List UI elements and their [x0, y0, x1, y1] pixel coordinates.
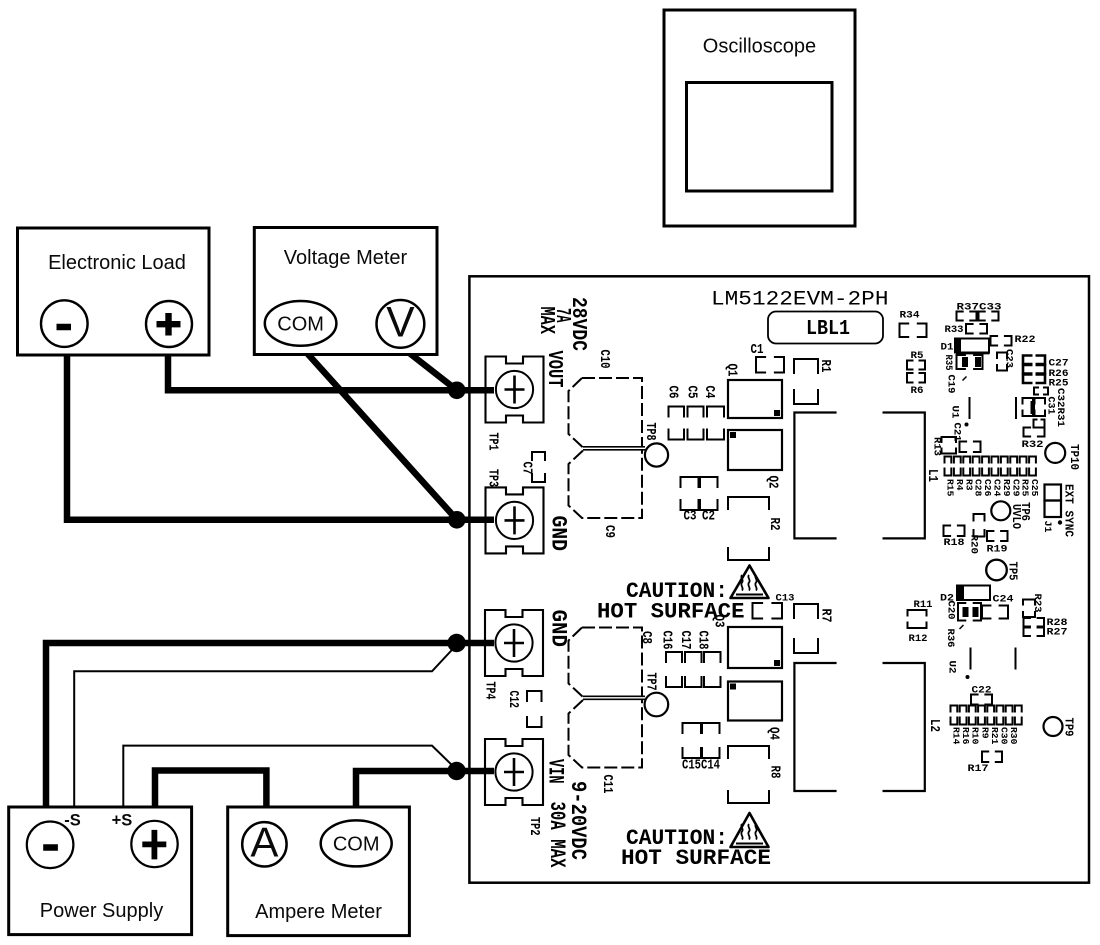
- capacitor C4: [701, 386, 724, 440]
- junction node GND2: [447, 634, 465, 652]
- svg-text:R20: R20: [968, 535, 980, 555]
- capacitor C2: [700, 477, 718, 525]
- TP3 label: [485, 469, 500, 487]
- svg-text:C7: C7: [519, 462, 534, 475]
- op-amp U1: [949, 377, 970, 427]
- test point TP10: [1045, 443, 1081, 470]
- resistor R20: [968, 514, 985, 554]
- svg-text:R33: R33: [945, 324, 964, 336]
- svg-text:R22: R22: [1015, 334, 1036, 346]
- electronic load terminal -: [41, 300, 88, 347]
- resistor R1: [794, 359, 832, 404]
- capacitor C24: [993, 594, 1014, 606]
- header labels: [951, 727, 1020, 745]
- capacitors C32 R31 C31: [1016, 388, 1066, 428]
- svg-text:GND: GND: [546, 610, 571, 648]
- svg-text:TP10: TP10: [1067, 444, 1081, 470]
- label LBL1: [768, 312, 883, 344]
- svg-text:R9: R9: [979, 727, 990, 739]
- svg-text:R12: R12: [909, 633, 928, 645]
- svg-text:R8: R8: [767, 766, 782, 779]
- transistor Q2: [728, 430, 782, 489]
- electronic load box: [18, 228, 210, 355]
- svg-text:C1: C1: [751, 343, 764, 358]
- svg-text:C29: C29: [1010, 479, 1021, 497]
- wire: power supply +S sense to VIN junction: [123, 746, 456, 808]
- svg-text:R15: R15: [945, 479, 956, 497]
- svg-text:L1: L1: [924, 469, 939, 482]
- svg-text:Power Supply: Power Supply: [40, 900, 163, 922]
- capacitor C7: [519, 452, 546, 482]
- svg-text:C31: C31: [1045, 397, 1057, 415]
- test point TP1 VOUT: [486, 357, 544, 423]
- svg-text:TP2: TP2: [526, 817, 541, 836]
- VIN label: [543, 759, 568, 784]
- svg-text:C28: C28: [973, 479, 984, 497]
- capacitor C5: [684, 386, 704, 440]
- capacitor C16: [659, 631, 683, 688]
- svg-text:LBL1: LBL1: [806, 317, 850, 341]
- caution hot surface upper: [597, 566, 769, 625]
- resistor R35: [942, 355, 983, 371]
- svg-text:J1: J1: [1041, 521, 1053, 533]
- svg-text:R6: R6: [911, 385, 924, 397]
- svg-text:LM5122EVM-2PH: LM5122EVM-2PH: [711, 289, 889, 312]
- wire: ampere meter COM to VIN junction TP2: [356, 771, 494, 808]
- svg-text:R2: R2: [766, 518, 781, 531]
- capacitor C13: [753, 593, 795, 619]
- oscilloscope screen: [687, 83, 833, 192]
- resistor R34: [900, 310, 927, 338]
- svg-text:VOUT: VOUT: [542, 351, 565, 388]
- capacitor C9 outline: [569, 451, 643, 539]
- svg-text:U1: U1: [949, 406, 961, 419]
- svg-text:Q3: Q3: [711, 615, 726, 628]
- svg-text:GND: GND: [546, 516, 571, 552]
- svg-text:R19: R19: [987, 544, 1008, 556]
- capacitor C18: [695, 631, 721, 688]
- capacitor C24 footprint: [982, 606, 1008, 619]
- svg-text:R17: R17: [968, 763, 989, 775]
- resistor R12: [909, 633, 928, 645]
- test point TP6 UVLO: [991, 501, 1032, 529]
- svg-text:28VDC: 28VDC: [566, 297, 590, 351]
- svg-text:R29: R29: [1001, 479, 1012, 497]
- svg-text:C26: C26: [982, 479, 993, 497]
- svg-text:TP1: TP1: [485, 433, 500, 451]
- transistor Q3: [711, 615, 783, 669]
- svg-text:R16: R16: [960, 727, 971, 745]
- svg-text:C10: C10: [596, 350, 611, 369]
- svg-text:TP5: TP5: [1006, 562, 1020, 581]
- svg-text:Oscilloscope: Oscilloscope: [703, 36, 816, 58]
- resistor R13: [931, 437, 957, 456]
- VOUT label: [542, 351, 565, 388]
- transistor Q4: [728, 682, 782, 741]
- capacitor C21 footprint: [960, 442, 981, 453]
- 9-20VDC 30A MAX rating: [544, 781, 591, 868]
- capacitor C12: [505, 691, 542, 728]
- voltage meter box: [254, 228, 437, 355]
- svg-text:Q1: Q1: [724, 364, 739, 377]
- svg-text:Q2: Q2: [765, 476, 780, 489]
- transistor Q1: [724, 364, 783, 419]
- capacitor C23: [997, 349, 1015, 371]
- TP1 label: [485, 433, 500, 451]
- svg-text:C9: C9: [601, 525, 616, 538]
- resistor R6: [907, 373, 925, 397]
- capacitor C19: [945, 375, 957, 394]
- svg-text:A: A: [250, 819, 278, 866]
- resistor R32: [1022, 420, 1045, 452]
- TP2 label: [526, 817, 541, 836]
- test point TP5: [986, 560, 1019, 581]
- test point TP8: [642, 423, 668, 467]
- svg-text:TP7: TP7: [643, 673, 658, 691]
- svg-text:R3: R3: [963, 479, 974, 491]
- test point TP9: [1044, 717, 1076, 737]
- PCB board outline LM5122EVM-2PH: [469, 276, 1089, 882]
- power supply terminal -: [27, 822, 74, 869]
- wire: electronic load + to VOUT junction: [168, 354, 494, 390]
- svg-text:C25: C25: [1029, 479, 1040, 497]
- svg-text:UVLO: UVLO: [1009, 504, 1023, 529]
- svg-text:C8: C8: [638, 631, 653, 644]
- svg-text:COM: COM: [277, 314, 324, 336]
- svg-text:U2: U2: [946, 661, 958, 674]
- resistor R27: [1024, 627, 1068, 639]
- svg-text:C5: C5: [684, 386, 699, 399]
- inductor L1: [794, 413, 939, 539]
- oscilloscope box: [664, 10, 855, 226]
- svg-text:HOT SURFACE: HOT SURFACE: [621, 846, 771, 871]
- svg-text:R27: R27: [1047, 627, 1068, 639]
- svg-text:Q4: Q4: [766, 727, 781, 740]
- resistors R37 C33: [957, 302, 1002, 321]
- svg-text:TP4: TP4: [482, 682, 497, 700]
- resistor R19: [987, 531, 1008, 556]
- svg-text:TP9: TP9: [1062, 718, 1076, 737]
- svg-text:C18: C18: [695, 631, 710, 650]
- wire: power supply + to ampere meter A: [155, 771, 266, 809]
- diode D1: [941, 339, 990, 354]
- svg-text:R10: R10: [970, 727, 981, 745]
- svg-text:Voltage Meter: Voltage Meter: [284, 247, 408, 269]
- svg-text:C20: C20: [945, 601, 957, 620]
- svg-text:COM: COM: [333, 833, 380, 855]
- voltage meter terminal V: [377, 300, 425, 348]
- resistor R8: [728, 746, 782, 803]
- test point TP4 GND: [485, 610, 543, 676]
- svg-text:R18: R18: [944, 537, 965, 549]
- svg-text:R32: R32: [1022, 439, 1044, 451]
- svg-text:VIN: VIN: [543, 759, 568, 784]
- ampere meter terminal COM: [321, 820, 392, 866]
- header R14 R16 R10 R9 R21 C30 R30: [951, 706, 1022, 725]
- caution hot surface lower: [621, 813, 771, 871]
- svg-text:C14: C14: [701, 759, 720, 774]
- capacitor C10 outline: [569, 350, 643, 448]
- capacitor C11 outline: [569, 700, 643, 794]
- svg-text:C3: C3: [684, 510, 697, 525]
- svg-text:30A MAX: 30A MAX: [544, 802, 570, 868]
- capacitor C6: [665, 386, 685, 440]
- svg-text:L2: L2: [926, 719, 941, 732]
- resistor R33: [945, 324, 988, 336]
- svg-text:+S: +S: [112, 812, 133, 830]
- GND label lower: [546, 610, 571, 648]
- capacitor C8 outline: [569, 628, 654, 698]
- svg-text:V: V: [386, 300, 415, 347]
- ampere meter terminal A: [242, 819, 286, 867]
- wire: voltage meter V to VOUT junction: [408, 352, 457, 390]
- svg-text:EXT SYNC: EXT SYNC: [1062, 484, 1075, 537]
- svg-text:TP3: TP3: [485, 469, 500, 487]
- svg-text:R1: R1: [817, 360, 832, 373]
- capacitor C17: [677, 631, 702, 688]
- svg-text:Ampere Meter: Ampere Meter: [255, 901, 382, 923]
- junction node VOUT: [448, 382, 466, 400]
- electronic load terminal +: [146, 301, 192, 347]
- voltage meter terminal COM: [265, 301, 337, 346]
- svg-text:C6: C6: [665, 386, 680, 399]
- wire: power supply - to GND junction TP4: [46, 643, 494, 808]
- resistor R7: [794, 604, 833, 653]
- svg-text:C24: C24: [992, 479, 1003, 497]
- diode D2: [940, 586, 990, 605]
- ampere meter box: [228, 807, 410, 936]
- resistor R11: [908, 599, 933, 628]
- trace to TP7: [583, 696, 645, 699]
- svg-text:C11: C11: [599, 775, 614, 794]
- svg-text:C12: C12: [505, 691, 520, 709]
- svg-text:Electronic Load: Electronic Load: [48, 252, 186, 274]
- test point TP7: [643, 673, 669, 717]
- svg-text:D1: D1: [941, 342, 954, 354]
- svg-text:R4: R4: [954, 479, 965, 491]
- wire: electronic load - to GND junction: [67, 354, 494, 520]
- header R15 R4 R3 C28 C26 C24 R29 C29 R25 C25: [945, 457, 1036, 476]
- power supply terminal +: [131, 821, 177, 867]
- svg-text:C30: C30: [999, 727, 1010, 745]
- capacitor C22: [971, 685, 992, 705]
- resistor R28: [1024, 617, 1068, 629]
- trace to TP8: [583, 447, 645, 450]
- board title: [711, 289, 889, 312]
- op-amp U2: [946, 648, 1016, 680]
- resistor R36: [944, 625, 964, 648]
- inductor L2: [794, 663, 941, 791]
- svg-text:R21: R21: [989, 727, 1000, 745]
- resistor R18: [944, 526, 965, 550]
- TP4 label: [482, 682, 497, 700]
- power supply +S label: [112, 812, 133, 830]
- svg-text:C17: C17: [677, 631, 692, 650]
- svg-text:R36: R36: [944, 629, 956, 648]
- svg-text:R14: R14: [951, 727, 962, 745]
- capacitor C20: [945, 601, 982, 621]
- svg-text:C19: C19: [945, 375, 957, 394]
- power supply -S label: [64, 812, 81, 830]
- capacitor C14: [701, 723, 720, 774]
- svg-text:C15: C15: [682, 759, 701, 774]
- resistor R2: [728, 497, 781, 560]
- svg-text:R23: R23: [1031, 594, 1043, 613]
- svg-text:-S: -S: [64, 812, 81, 830]
- header labels: [945, 479, 1041, 497]
- resistor R22: [991, 334, 1036, 346]
- test point TP2 VIN: [485, 739, 543, 805]
- connector J1 EXT SYNC: [1041, 484, 1075, 537]
- GND label: [546, 516, 571, 552]
- svg-text:R30: R30: [1008, 727, 1019, 745]
- svg-text:R25: R25: [1020, 479, 1031, 497]
- svg-text:C4: C4: [701, 386, 716, 399]
- svg-text:R34: R34: [900, 310, 920, 322]
- test point TP3 GND: [486, 487, 544, 553]
- svg-text:C24: C24: [993, 594, 1014, 606]
- capacitor C3: [681, 477, 699, 525]
- wire: power supply -S sense to GND junction: [74, 645, 456, 808]
- resistor R23: [1023, 594, 1043, 618]
- svg-text:C2: C2: [702, 510, 715, 525]
- junction node VIN: [447, 762, 465, 780]
- svg-text:R7: R7: [818, 609, 833, 623]
- capacitors C27 R26 R25: [1023, 356, 1069, 390]
- junction node GND: [448, 511, 466, 529]
- capacitor C21: [951, 423, 963, 442]
- svg-text:C16: C16: [659, 631, 674, 650]
- resistor R5: [907, 350, 925, 370]
- resistor R17: [968, 752, 1003, 776]
- power supply box: [9, 807, 192, 935]
- svg-text:MAX: MAX: [534, 307, 558, 335]
- svg-text:TP8: TP8: [642, 423, 657, 441]
- capacitor C1: [751, 343, 785, 373]
- svg-text:R35: R35: [942, 355, 954, 371]
- capacitor C15: [682, 723, 701, 774]
- wire: voltage meter COM to GND junction: [306, 352, 457, 520]
- 28VDC 7A MAX rating: [534, 297, 590, 351]
